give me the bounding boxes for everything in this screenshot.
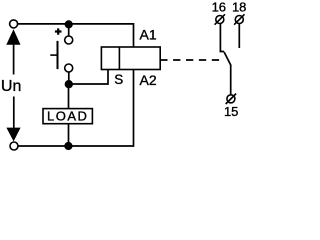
- pushbutton actuator tick: [50, 54, 57, 56]
- pushbutton bottom contact circle: [65, 64, 73, 72]
- wire: LOAD to bottom rail: [68, 124, 70, 146]
- arrow down: [6, 128, 20, 142]
- contact fixed line 16 with foot: [220, 24, 224, 52]
- junction S node: [65, 80, 73, 88]
- svg-text:LOAD: LOAD: [47, 109, 88, 124]
- junction on top rail: [65, 20, 73, 28]
- terminal circle top-left: [10, 20, 18, 28]
- terminal slash 16: [215, 14, 225, 24]
- svg-text:S: S: [114, 72, 123, 87]
- wire: button bottom contact to S node: [68, 72, 70, 84]
- svg-text:18: 18: [232, 0, 246, 14]
- pushbutton top contact circle: [65, 36, 73, 44]
- mechanical link (dashed): [160, 59, 220, 61]
- wire: S node down to LOAD: [68, 84, 70, 109]
- terminal circle bottom-left: [10, 142, 18, 150]
- plus polarity mark: [55, 28, 62, 34]
- wire: junction to button top contact: [68, 26, 70, 36]
- terminal circle 18: [235, 16, 243, 24]
- svg-text:Un: Un: [1, 78, 21, 95]
- arrow up (supply polarity): [6, 29, 20, 45]
- terminal slash 15: [226, 94, 236, 104]
- terminal circle 16: [216, 16, 224, 24]
- wire: S node to relay S pin: [69, 70, 108, 85]
- contact lever (changeover): [224, 52, 231, 94]
- wire: left vertical upper segment: [13, 42, 15, 75]
- svg-text:15: 15: [224, 104, 238, 119]
- svg-text:16: 16: [212, 0, 226, 14]
- svg-text:A2: A2: [140, 72, 157, 88]
- relay box divider: [118, 47, 120, 70]
- svg-text:A1: A1: [140, 27, 157, 43]
- wire: left vertical lower segment: [13, 97, 15, 131]
- terminal circle 15: [227, 95, 235, 103]
- LOAD box: [43, 109, 92, 124]
- pushbutton moving contact bar: [57, 41, 59, 69]
- terminal slash 18: [234, 14, 244, 24]
- wire: top horizontal rail with A1 pin drop: [18, 24, 134, 47]
- contact fixed line 18: [238, 24, 240, 48]
- junction on bottom rail: [64, 142, 72, 150]
- wire: bottom horizontal rail with A2 riser: [18, 70, 133, 147]
- relay coil box U1: [101, 47, 160, 70]
